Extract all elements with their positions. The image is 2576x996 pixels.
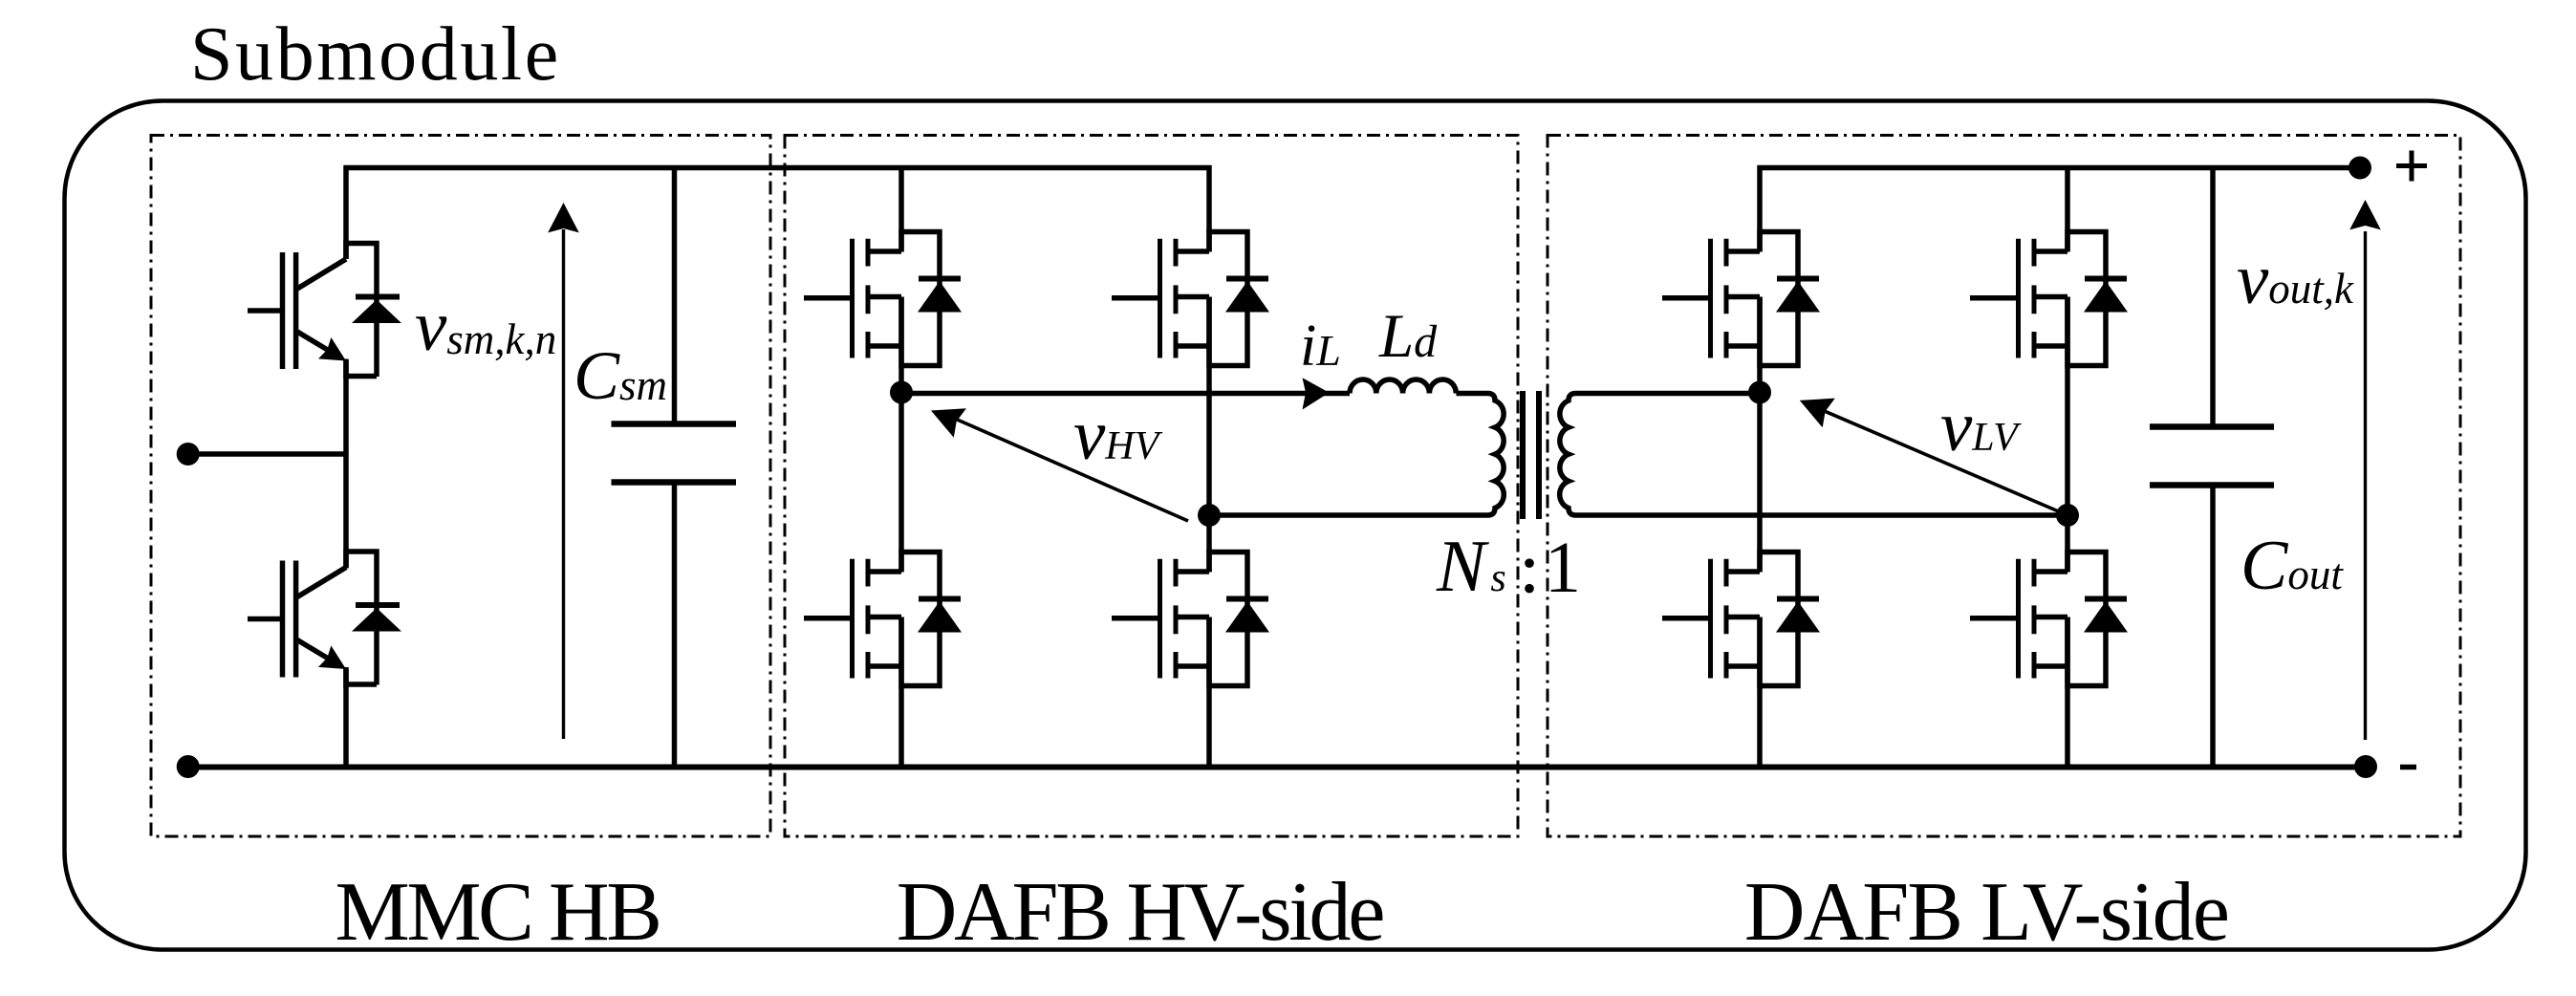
- transformer secondary winding: [1560, 394, 2067, 516]
- capacitor Cout: [2210, 165, 2216, 767]
- node LV right mid: [2056, 504, 2079, 527]
- transistor Q1 (IGBT top): [248, 241, 401, 379]
- svg-text:vout,k: vout,k: [2237, 240, 2354, 319]
- transistor S7 (LV bottom-left MOSFET): [1662, 550, 1820, 689]
- node output minus: [2354, 755, 2377, 778]
- node bottom-left dot: [177, 755, 200, 778]
- svg-text:vHV: vHV: [1073, 396, 1163, 475]
- arrow v_out,k: [2364, 231, 2367, 740]
- svg-text:vsm,k,n: vsm,k,n: [415, 287, 556, 366]
- dash-dot box DAFB LV-side: [1548, 136, 2460, 837]
- node input dot: [177, 443, 200, 466]
- arrow v_HV: [957, 420, 1189, 521]
- transistor Q2 (IGBT bottom): [248, 549, 401, 687]
- transistor S1 (HV top-left MOSFET): [804, 229, 962, 369]
- svg-text:DAFB HV-side: DAFB HV-side: [897, 866, 1384, 959]
- wire: bottom rail: [188, 765, 2366, 770]
- arrow v_sm measurement: [562, 229, 565, 739]
- wire: IGBT leg column segments: [343, 165, 349, 767]
- svg-text:Submodule: Submodule: [190, 12, 561, 97]
- transistor S3 (HV bottom-left MOSFET): [804, 550, 962, 689]
- transistor S2 (HV top-right MOSFET): [1112, 229, 1269, 369]
- transistor S5 (LV top-left MOSFET): [1662, 229, 1820, 369]
- inductor Ld: [1350, 379, 1456, 394]
- LV bridge right leg column: [2065, 165, 2070, 767]
- node HV left mid: [890, 381, 913, 404]
- svg-text:Csm: Csm: [574, 337, 667, 414]
- LV bridge left leg column: [1757, 165, 1763, 767]
- svg-text:1: 1: [1545, 528, 1581, 608]
- transformer core: [1523, 391, 1539, 519]
- HV bridge right leg column: [1206, 165, 1212, 767]
- minus sign: [2400, 765, 2416, 770]
- transistor S4 (HV bottom-right MOSFET): [1112, 550, 1269, 689]
- dash-dot box MMC HB: [151, 136, 770, 837]
- arrow i_L head: [1303, 378, 1330, 409]
- HV bridge left leg column: [898, 165, 904, 767]
- node LV left mid: [1748, 381, 1771, 404]
- wire: MMC+HV top rail: [344, 165, 1212, 171]
- wire: input wire: [188, 451, 346, 457]
- wire: LV top rail: [1758, 165, 2361, 171]
- svg-text:iL: iL: [1300, 314, 1341, 379]
- svg-text:DAFB LV-side: DAFB LV-side: [1744, 866, 2228, 959]
- transistor S8 (LV bottom-right MOSFET): [1970, 550, 2128, 689]
- dash-dot box DAFB HV-side: [785, 136, 1518, 837]
- svg-text:Ns: Ns: [1436, 525, 1506, 607]
- arrow v_LV: [1825, 411, 2062, 512]
- svg-text:vLV: vLV: [1940, 387, 2022, 466]
- transformer primary winding: [1212, 394, 1504, 516]
- transistor S6 (LV top-right MOSFET): [1970, 229, 2128, 369]
- node HV right mid: [1198, 504, 1221, 527]
- node output plus: [2349, 157, 2371, 180]
- svg-text:Ld: Ld: [1378, 302, 1438, 371]
- svg-text:Cout: Cout: [2240, 527, 2344, 605]
- plus sign: [2396, 151, 2427, 182]
- capacitor Csm: [672, 165, 678, 767]
- svg-text:MMC HB: MMC HB: [335, 866, 659, 959]
- wire: HV mid to inductor: [901, 391, 1350, 397]
